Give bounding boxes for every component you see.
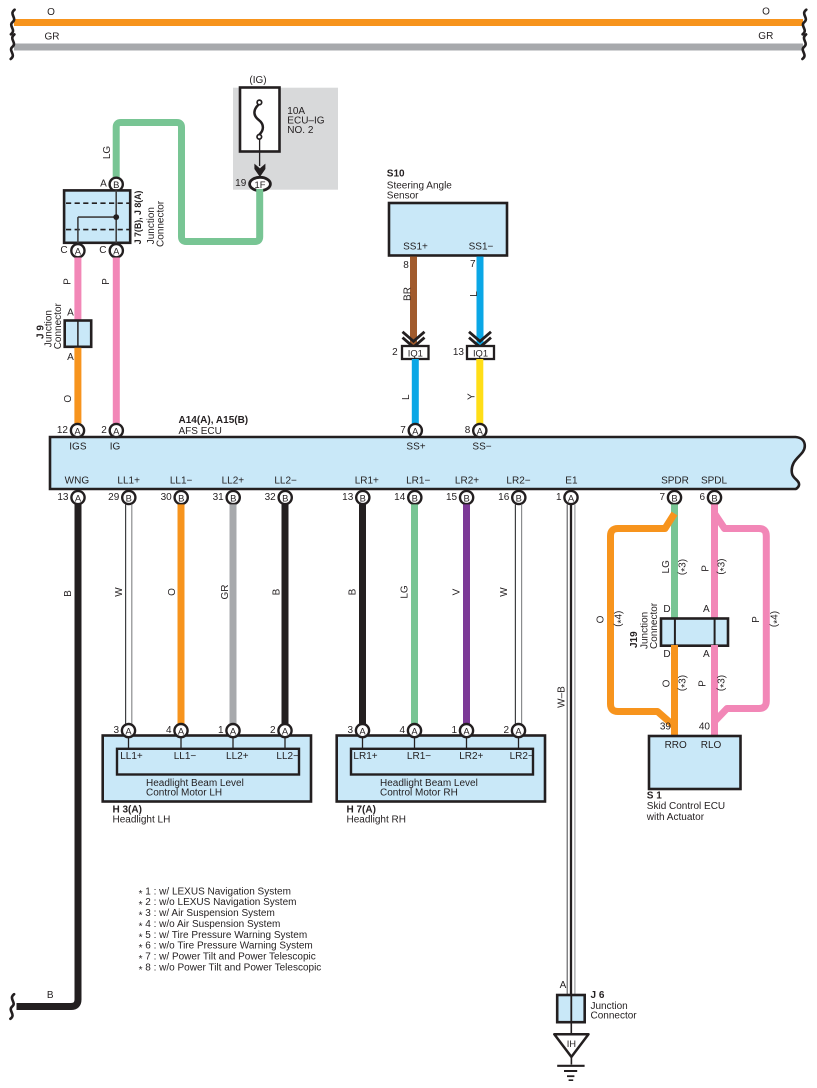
svg-text:(*3): (*3) <box>677 675 691 691</box>
wire P left pink to J9 <box>63 258 78 321</box>
svg-text:32: 32 <box>265 492 277 503</box>
svg-text:Headlight RH: Headlight RH <box>347 815 406 826</box>
svg-text:2: 2 <box>503 725 509 736</box>
motor LH pin 4 <box>166 724 188 737</box>
svg-text:Headlight LH: Headlight LH <box>113 815 171 826</box>
svg-text:7: 7 <box>659 492 665 503</box>
wire P right pink to ECU pin 2 <box>101 258 117 424</box>
break symbol left GR <box>11 34 15 59</box>
svg-text:A: A <box>75 246 82 257</box>
wire B from WNG down-left to break <box>17 504 79 1006</box>
ECU bottom pin 31 LL2+ <box>213 491 240 504</box>
svg-text:O: O <box>63 395 74 403</box>
svg-text:S10: S10 <box>387 169 405 180</box>
svg-text:13: 13 <box>57 492 69 503</box>
motor LH pin 1 <box>218 724 240 737</box>
wire W LR2- to motor <box>499 504 522 723</box>
svg-text:W–B: W–B <box>557 686 568 708</box>
wire GR LL2+ to motor <box>220 504 233 723</box>
svg-text:B: B <box>412 492 418 503</box>
ECU bottom pin 6 SPDL <box>699 491 721 504</box>
svg-text:Sensor: Sensor <box>387 190 419 201</box>
svg-text:A: A <box>67 307 74 318</box>
svg-text:7: 7 <box>470 259 476 270</box>
svg-text:W: W <box>499 587 510 597</box>
svg-text:O: O <box>167 588 178 596</box>
svg-text:B: B <box>282 492 288 503</box>
wire LG LR1- to motor <box>400 504 415 723</box>
svg-text:A: A <box>125 725 132 736</box>
svg-text:(*4): (*4) <box>769 611 783 627</box>
svg-text:SS+: SS+ <box>406 442 425 453</box>
svg-text:LR2−: LR2− <box>506 475 530 486</box>
svg-text:2: 2 <box>101 425 107 436</box>
ECU bottom pin 15 LR2+ <box>446 491 473 504</box>
ECU bottom pin 14 LR1- <box>394 491 421 504</box>
svg-text:(*3): (*3) <box>716 675 730 691</box>
wire GR bus top <box>14 31 803 51</box>
svg-text:RRO: RRO <box>665 740 687 751</box>
motor RH pin 3 <box>347 724 369 737</box>
svg-text:H 7(A): H 7(A) <box>347 804 376 815</box>
svg-text:B: B <box>63 590 74 597</box>
svg-text:SPDR: SPDR <box>661 475 689 486</box>
motor RH pin 2 <box>503 724 525 737</box>
svg-text:4: 4 <box>399 725 405 736</box>
svg-text:A: A <box>67 352 74 363</box>
wire B LR1+ to motor <box>348 504 363 723</box>
svg-text:B: B <box>113 179 119 190</box>
svg-text:IH: IH <box>567 1038 576 1049</box>
svg-text:40: 40 <box>699 722 711 733</box>
svg-text:16: 16 <box>498 492 510 503</box>
wire BR from SS1+ <box>403 257 414 346</box>
wire LG SPDR to J19 <box>661 504 691 620</box>
motor LH pin 2 <box>270 724 292 737</box>
svg-text:A14(A), A15(B): A14(A), A15(B) <box>179 415 249 426</box>
junction connector J6 <box>557 980 637 1022</box>
svg-text:2: 2 <box>392 347 398 358</box>
connector IQ1 pin 13 <box>453 346 494 359</box>
arrow into IQ1 right <box>469 332 491 347</box>
svg-text:B: B <box>126 492 132 503</box>
motor RH pin 4 <box>399 724 421 737</box>
break symbol right GR <box>802 34 806 59</box>
svg-text:A: A <box>178 725 185 736</box>
svg-text:13: 13 <box>453 347 465 358</box>
svg-text:IGS: IGS <box>69 442 87 453</box>
wire B LL2- to motor <box>272 504 286 723</box>
headlight motor LH box <box>103 736 311 826</box>
ground IH <box>554 1022 588 1080</box>
svg-text:B: B <box>671 492 677 503</box>
junction connector J7(B), J8(A) <box>64 190 166 247</box>
svg-text:P: P <box>701 565 712 572</box>
ECU bottom pin 13 WNG <box>57 491 84 504</box>
break symbol top-right O <box>803 10 807 35</box>
svg-text:GR: GR <box>758 31 773 42</box>
S10 steering angle sensor <box>387 169 507 256</box>
svg-text:with Actuator: with Actuator <box>646 812 705 823</box>
svg-text:IQ1: IQ1 <box>473 347 488 358</box>
svg-text:A: A <box>411 725 418 736</box>
svg-text:A: A <box>113 246 120 257</box>
svg-text:C: C <box>60 245 67 256</box>
svg-text:LL1+: LL1+ <box>117 475 140 486</box>
svg-text:O: O <box>762 7 770 18</box>
svg-text:GR: GR <box>45 32 60 43</box>
junction connector J19 <box>629 602 728 660</box>
arrow into IQ1 left <box>403 332 425 347</box>
junction connector J9 <box>36 302 92 349</box>
fuse block gray panel <box>233 88 338 190</box>
svg-text:B: B <box>178 492 184 503</box>
svg-text:14: 14 <box>394 492 406 503</box>
svg-text:A: A <box>230 725 237 736</box>
svg-text:6: 6 <box>699 492 705 503</box>
svg-text:Y: Y <box>467 393 478 400</box>
wire P branch (w/o air suspension) right <box>715 514 783 722</box>
wire O bus top <box>14 7 803 27</box>
svg-text:P: P <box>751 616 762 623</box>
svg-text:3: 3 <box>347 725 353 736</box>
wire W-B E1 to J6 <box>557 504 575 995</box>
AFS ECU label <box>179 415 249 437</box>
motor LH pin 3 <box>113 724 135 737</box>
svg-text:19: 19 <box>235 178 247 189</box>
ECU bottom pin 32 LL2- <box>265 491 292 504</box>
svg-text:BR: BR <box>403 287 414 301</box>
pin A (C) right of J7/J8 <box>99 244 123 257</box>
ECU pin 12 IGS <box>57 424 87 453</box>
svg-text:LR1+: LR1+ <box>353 751 377 762</box>
ECU bottom pin 29 LL1+ <box>108 491 135 504</box>
svg-text:30: 30 <box>161 492 173 503</box>
svg-text:RLO: RLO <box>701 740 722 751</box>
svg-text:LR2+: LR2+ <box>459 751 483 762</box>
svg-text:LL1−: LL1− <box>170 475 193 486</box>
svg-text:LL2+: LL2+ <box>226 751 249 762</box>
wire V LR2+ to motor <box>452 504 467 723</box>
wire O J19 to S1 RRO <box>662 645 691 737</box>
svg-text:NO. 2: NO. 2 <box>287 125 314 136</box>
svg-text:B: B <box>516 492 522 503</box>
svg-text:3: 3 <box>113 725 119 736</box>
break symbol bottom-left B <box>10 994 14 1019</box>
svg-text:* 8 : w/o Power Tilt and Power: * 8 : w/o Power Tilt and Power Telescopi… <box>139 962 322 976</box>
svg-text:LR1+: LR1+ <box>355 475 379 486</box>
notes list <box>139 886 322 976</box>
wire P J19 to S1 RLO <box>698 645 730 737</box>
wire Y from IQ1 to ECU pin 8 <box>467 359 480 424</box>
ECU bottom pin 1 E1 <box>556 491 578 504</box>
svg-text:W: W <box>114 587 125 597</box>
svg-text:SS1−: SS1− <box>469 242 494 253</box>
svg-text:(*3): (*3) <box>677 559 691 575</box>
svg-text:J 6: J 6 <box>591 990 605 1001</box>
svg-text:31: 31 <box>213 492 225 503</box>
svg-text:A: A <box>100 179 107 190</box>
svg-text:Control Motor RH: Control Motor RH <box>380 788 458 799</box>
svg-text:8: 8 <box>465 425 471 436</box>
svg-text:1: 1 <box>218 725 224 736</box>
svg-text:E1: E1 <box>565 475 578 486</box>
headlight motor RH box <box>337 736 545 826</box>
svg-text:A: A <box>568 492 575 503</box>
ECU pin 7 SS+ <box>400 424 426 453</box>
svg-text:P: P <box>101 278 112 285</box>
svg-text:SS1+: SS1+ <box>403 242 428 253</box>
svg-text:WNG: WNG <box>65 475 90 486</box>
svg-text:B: B <box>348 588 359 595</box>
wire L from IQ1 to ECU pin 7 <box>401 359 416 424</box>
wire P SPDL to J19 <box>701 504 730 620</box>
svg-text:2: 2 <box>270 725 276 736</box>
svg-text:A: A <box>560 980 567 991</box>
AFS ECU box <box>50 437 805 489</box>
svg-text:A: A <box>113 425 120 436</box>
svg-text:39: 39 <box>660 722 672 733</box>
ECU bottom pin 7 SPDR <box>659 491 681 504</box>
svg-text:LG: LG <box>102 146 113 160</box>
wire W LL1+ to motor <box>114 504 132 723</box>
svg-text:1F: 1F <box>255 179 266 190</box>
connector IQ1 pin 2 <box>392 346 428 359</box>
svg-text:(IG): (IG) <box>249 75 266 86</box>
svg-text:O: O <box>662 679 673 687</box>
svg-text:Control Motor LH: Control Motor LH <box>146 788 222 799</box>
ECU bottom pin 30 LL1- <box>161 491 188 504</box>
svg-text:15: 15 <box>446 492 458 503</box>
svg-text:O: O <box>596 615 607 623</box>
svg-text:1: 1 <box>451 725 457 736</box>
connector 1F pin 19 <box>235 177 270 190</box>
svg-text:B: B <box>230 492 236 503</box>
svg-text:LL1−: LL1− <box>174 751 197 762</box>
svg-text:Connector: Connector <box>53 302 64 349</box>
svg-text:L: L <box>401 394 412 400</box>
svg-text:J 7(B), J 8(A): J 7(B), J 8(A) <box>133 190 143 244</box>
svg-text:A: A <box>75 492 82 503</box>
svg-text:SS−: SS− <box>472 442 491 453</box>
pin B of J7/J8 <box>100 178 123 191</box>
svg-text:LL2−: LL2− <box>274 475 297 486</box>
svg-text:Connector: Connector <box>591 1011 638 1022</box>
wire fuse to 1F with arrow <box>254 139 265 177</box>
svg-text:Connector: Connector <box>649 602 660 649</box>
svg-text:13: 13 <box>342 492 354 503</box>
svg-text:C: C <box>99 245 106 256</box>
svg-text:A: A <box>515 725 522 736</box>
svg-text:S 1: S 1 <box>647 790 662 801</box>
motor RH pin 1 <box>451 724 473 737</box>
svg-text:LR1−: LR1− <box>406 475 430 486</box>
svg-text:4: 4 <box>166 725 172 736</box>
pin A (C) left of J7/J8 <box>60 244 84 257</box>
svg-text:Connector: Connector <box>155 200 166 247</box>
svg-text:A: A <box>282 725 289 736</box>
svg-text:GR: GR <box>220 585 231 600</box>
svg-text:B: B <box>47 990 54 1001</box>
svg-text:H 3(A): H 3(A) <box>113 804 142 815</box>
wire O branch (w/o air suspension) left <box>596 514 675 726</box>
svg-text:LL1+: LL1+ <box>120 751 143 762</box>
svg-text:D: D <box>663 604 670 615</box>
wire O LL1- to motor <box>167 504 181 723</box>
svg-text:LG: LG <box>661 560 672 574</box>
svg-text:8: 8 <box>403 260 409 271</box>
wire LG from 1F to junction connector B <box>116 123 260 242</box>
svg-text:A: A <box>359 725 366 736</box>
ECU bottom pin 16 LR2- <box>498 491 525 504</box>
fuse 10A ECU-IG NO.2 <box>240 88 325 152</box>
svg-text:A: A <box>703 604 710 615</box>
svg-text:A: A <box>477 425 484 436</box>
svg-text:B: B <box>463 492 469 503</box>
svg-text:L: L <box>469 291 480 297</box>
svg-text:B: B <box>360 492 366 503</box>
svg-text:LR2−: LR2− <box>510 751 534 762</box>
svg-text:1: 1 <box>556 492 562 503</box>
S1 skid control ECU box <box>646 722 741 823</box>
svg-text:(*3): (*3) <box>716 559 730 575</box>
svg-text:29: 29 <box>108 492 120 503</box>
ECU pin 8 SS- <box>465 424 492 453</box>
svg-text:B: B <box>711 492 717 503</box>
ECU bottom labels <box>65 475 728 486</box>
svg-text:LL2−: LL2− <box>276 751 299 762</box>
svg-text:12: 12 <box>57 425 69 436</box>
break symbol top-left O <box>11 10 15 35</box>
svg-text:P: P <box>63 278 74 285</box>
svg-text:LL2+: LL2+ <box>222 475 245 486</box>
svg-text:(*4): (*4) <box>613 611 627 627</box>
svg-text:AFS ECU: AFS ECU <box>179 426 222 437</box>
svg-text:7: 7 <box>400 425 406 436</box>
svg-text:A: A <box>412 425 419 436</box>
ECU bottom pin 13 LR1+ <box>342 491 369 504</box>
svg-text:Skid Control ECU: Skid Control ECU <box>647 801 725 812</box>
wire O from J9 to ECU pin 12 <box>63 348 78 424</box>
svg-text:J19: J19 <box>629 631 640 648</box>
svg-text:IQ1: IQ1 <box>408 347 423 358</box>
svg-text:A: A <box>703 649 710 660</box>
svg-text:LR2+: LR2+ <box>455 475 479 486</box>
svg-text:IG: IG <box>110 442 121 453</box>
svg-text:A: A <box>74 425 81 436</box>
svg-text:B: B <box>272 588 283 595</box>
wire L from SS1- <box>469 257 480 346</box>
svg-text:D: D <box>663 649 670 660</box>
svg-text:V: V <box>452 588 463 595</box>
svg-text:A: A <box>463 725 470 736</box>
svg-text:LG: LG <box>400 585 411 599</box>
svg-text:O: O <box>47 7 55 18</box>
svg-text:LR1−: LR1− <box>407 751 431 762</box>
ECU pin 2 IG <box>101 424 123 453</box>
svg-text:P: P <box>698 680 709 687</box>
svg-text:SPDL: SPDL <box>701 475 728 486</box>
